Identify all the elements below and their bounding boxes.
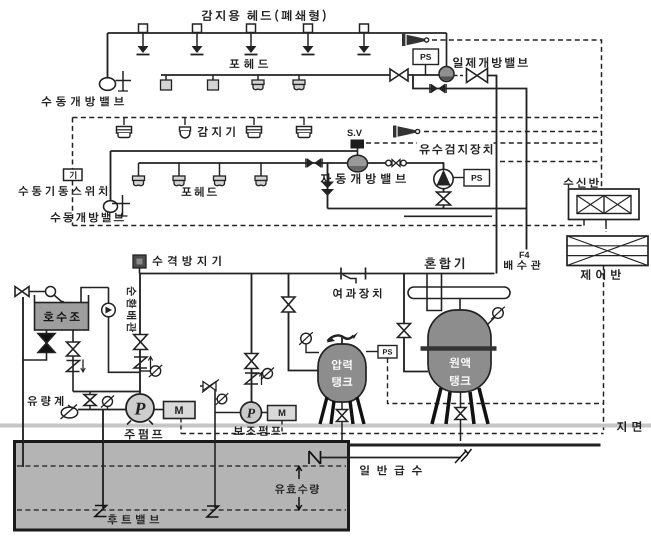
chamber drain — [341, 402, 343, 440]
dashed control panel down — [603, 266, 605, 434]
detection head 3 (closed type) — [245, 24, 258, 55]
label label waterflow detector — [420, 144, 493, 155]
priming feed line — [29, 291, 45, 293]
gate valve (deluge outlet) — [467, 69, 488, 83]
dashed signal flow-line — [500, 161, 602, 163]
pipe deluge outlet to riser1 — [488, 76, 497, 274]
circulation into tank — [81, 288, 109, 303]
foam head z2-1 — [133, 176, 145, 186]
alarm horn 2 (alarm horn) — [393, 126, 420, 138]
jockey check valve (swing check) — [245, 373, 264, 386]
label drain pipe end mark F4 — [520, 252, 530, 258]
drop head z2-3 — [219, 163, 221, 176]
drop to head 1 — [165, 75, 167, 80]
manual open valve (zone2) — [104, 195, 131, 216]
proportioner U-tube — [427, 274, 442, 311]
stem gauge main — [141, 370, 151, 372]
priming tank (호수조) — [35, 295, 89, 330]
label label proportioner — [425, 258, 465, 270]
foam head z2-2 — [173, 176, 185, 186]
dashed power line — [181, 433, 604, 435]
label label deluge valve — [453, 57, 528, 68]
dashed signal horn1 to receiver — [432, 40, 602, 189]
detector 1 — [117, 127, 132, 138]
drop head z2-1 — [138, 163, 140, 176]
priming outlet valve — [67, 342, 80, 356]
suction valve — [84, 395, 96, 406]
foam head 4 (zone1) — [293, 80, 305, 90]
discharge header — [140, 273, 495, 275]
pressure switch PS1 — [413, 49, 439, 65]
pressure chamber tank — [318, 344, 366, 402]
effective volume arrows — [296, 466, 302, 510]
motor M (main) — [164, 402, 196, 419]
pressure gauge (main) — [149, 365, 162, 377]
stem gauge foam tank — [488, 317, 495, 324]
main discharge gate valve — [134, 335, 148, 350]
dashed PS3 signal — [388, 358, 604, 404]
dashed stub deluge-gate — [455, 75, 467, 77]
stem arrester — [139, 268, 141, 274]
motor M (jockey) — [268, 406, 297, 421]
label label jockey pump — [234, 426, 281, 436]
water tank — [15, 442, 349, 531]
detection head 1 (closed type) — [137, 24, 150, 55]
label label water hammer arrester — [153, 256, 221, 266]
stem gauge suction — [107, 407, 109, 410]
foam head 2 (zone1) — [208, 80, 219, 90]
overflow/drain pipe (x23) — [22, 297, 24, 467]
detection head 4 (closed type) — [302, 24, 315, 55]
label label receiver panel — [564, 178, 599, 188]
label foam tank text line2 — [450, 376, 471, 387]
foam tank drain — [460, 392, 462, 441]
chamber drain valve — [337, 410, 348, 422]
general supply pipe — [322, 457, 462, 459]
label label drain pipe — [504, 260, 541, 270]
dashed receiver to control — [605, 226, 607, 232]
dashed signal SV — [366, 142, 602, 144]
label label automatic open valve — [321, 173, 406, 184]
label label foam heads (zone2) — [182, 187, 217, 197]
tank drain left — [23, 330, 47, 360]
jockey suction — [215, 412, 241, 414]
alarm horn 1 (alarm horn) — [402, 34, 429, 46]
ground line — [0, 424, 651, 428]
pressure gauge (jockey) — [261, 368, 274, 380]
drop to manual valve 2 — [110, 151, 112, 201]
relief test valve (jockey suction) — [202, 380, 219, 393]
foam tank water line — [404, 274, 428, 372]
water hammer arrester — [133, 255, 146, 268]
stem detector 2 — [184, 118, 186, 126]
jockey suction drop — [214, 391, 216, 508]
small test valve (ball w/ unions) — [386, 160, 407, 167]
stem detector 1 — [123, 118, 125, 126]
jockey suction top line — [200, 386, 215, 391]
check symbol (zone2 line) (check symbol) — [306, 159, 322, 168]
control panel (제어반) — [567, 236, 648, 266]
label label foam heads (zone1) — [230, 59, 269, 69]
test check valves (top) (check symbol) — [430, 84, 446, 93]
jockey pump P — [241, 402, 262, 423]
gate valve (deluge inlet) — [390, 69, 408, 81]
relief valve (circulation) — [102, 303, 116, 317]
foam head 1 (zone1) — [161, 80, 172, 90]
deluge valve (일제개방밸브) — [439, 67, 454, 82]
drain header (zone2) — [328, 208, 527, 210]
pipe below alarm valve — [443, 189, 445, 209]
label label strainer — [333, 288, 381, 298]
pipe drop to manual valve — [107, 33, 109, 78]
general supply symbol N — [309, 451, 321, 464]
label label priming tank — [44, 312, 80, 322]
drop head z2-4 — [260, 163, 262, 176]
tank outlet right — [72, 330, 74, 392]
label title detection heads — [202, 9, 326, 21]
stem detector 3 — [253, 118, 255, 126]
drop to head 4 — [298, 75, 300, 80]
foam head z2-3 — [214, 176, 226, 186]
pipe to alarm valve — [368, 163, 444, 170]
check valve (double triangle) — [321, 182, 334, 197]
manual start switch box — [64, 169, 83, 181]
suction line main — [78, 409, 127, 411]
detection head 2 (closed type) — [191, 24, 204, 55]
ball float valve — [46, 287, 65, 305]
drain valve (alarm) — [437, 192, 451, 205]
label label manual open valve (top) — [42, 96, 124, 106]
drop to head 2 — [212, 75, 214, 80]
label label circulation pipe (vertical) — [127, 287, 137, 333]
circulation line upper — [108, 288, 110, 304]
label label manual open valve (zone2) — [51, 212, 124, 222]
gauge (jockey suction) — [216, 393, 229, 405]
label label effective volume — [275, 484, 319, 494]
dashed zone2 box top — [73, 117, 602, 119]
air vent (chamber) — [327, 332, 359, 344]
link chamber-PS — [366, 351, 378, 353]
foam head z2-4 — [255, 176, 267, 186]
chamber valve — [282, 297, 295, 312]
floor line — [349, 444, 601, 447]
supply pipe break — [455, 449, 472, 463]
priming check valve (swing check) — [67, 360, 86, 373]
foam drain valve — [455, 408, 466, 420]
dashed zone2 box bottom — [73, 225, 585, 227]
foam tank legs — [432, 388, 488, 424]
detection head 5 (closed type) — [358, 24, 371, 55]
pipe preaction supply — [111, 150, 358, 152]
priming return line — [73, 391, 141, 393]
detector 3 — [247, 127, 262, 138]
compound gauge (suction) — [101, 396, 114, 408]
pressure gauge (chamber) — [299, 332, 313, 345]
label label general supply — [360, 465, 422, 475]
stem gauge jockey — [252, 373, 263, 375]
stem gauge jockey-suction — [215, 398, 218, 400]
pipe head branch (zone2) — [139, 162, 349, 164]
dashed M1 drop — [180, 419, 182, 434]
manual open valve (top zone) — [100, 71, 132, 91]
link jockey-motor — [262, 412, 268, 414]
proportioner capsule (혼합기) — [408, 287, 510, 299]
proportioner stem — [459, 299, 461, 312]
foot valve (jockey) — [207, 506, 219, 517]
label label foot valve — [108, 514, 160, 524]
stem PS1 — [425, 65, 427, 76]
drop to head 3 — [257, 75, 259, 80]
alarm check valve — [434, 169, 453, 188]
pipe detection branch — [108, 32, 447, 34]
circulation line lower — [109, 317, 141, 373]
main pump column — [139, 274, 141, 396]
label label ground — [617, 421, 642, 432]
pipe open-head branch (zone1) — [161, 74, 440, 76]
dashed zone2 box left (lower) — [72, 181, 74, 226]
label label flow meter — [28, 396, 64, 406]
drain stub — [404, 215, 492, 217]
priming feed valve — [15, 287, 29, 297]
pressure gauge (foam tank) — [491, 307, 505, 320]
solenoid valve S.V — [351, 140, 365, 156]
test bypass pipe — [413, 75, 527, 250]
drop check branch — [327, 163, 329, 209]
strainer (여과장치) — [341, 268, 366, 284]
pressure switch PS3 — [378, 346, 397, 359]
drop head z2-2 — [178, 163, 180, 176]
main pump P — [126, 394, 154, 425]
automatic open valve (ball) — [348, 155, 368, 172]
label label manual start switch — [19, 186, 108, 196]
pressure switch PS2 — [464, 170, 490, 187]
label foam tank text line1 — [450, 358, 470, 369]
label chamber text line2 — [332, 377, 352, 387]
stem deluge top — [446, 33, 448, 67]
main discharge check valve (swing check) — [134, 357, 153, 370]
label label control panel — [580, 269, 621, 280]
stem gauge chamber — [306, 344, 319, 353]
suction drop main — [102, 410, 104, 509]
stem detector 4 — [303, 118, 305, 126]
dashed zone2 box left (upper) — [72, 118, 74, 170]
link alarm-PS — [453, 177, 464, 179]
foam water valve — [398, 324, 411, 338]
chamber column — [289, 274, 319, 371]
suction valve branch — [89, 392, 91, 410]
jockey gate valve — [245, 354, 258, 369]
foam concentrate tank (원액탱크) — [428, 310, 491, 392]
detector 4 — [297, 127, 312, 138]
chamber legs — [320, 397, 364, 424]
foot valve (main) — [95, 506, 107, 517]
dashed M2 drop — [281, 421, 283, 434]
link pump-motor — [154, 409, 164, 411]
label S.V — [347, 130, 362, 137]
flow meter — [61, 405, 78, 420]
jockey column — [251, 274, 253, 403]
priming drain valve (closed) — [38, 334, 55, 353]
label label main pump — [125, 429, 163, 440]
dashed signal horn2 — [424, 131, 602, 133]
foam head 3 (zone1) — [252, 80, 264, 90]
receiver panel (수신반) — [569, 189, 640, 220]
stem receiver R — [605, 220, 607, 227]
detector 2 (dome) — [180, 127, 191, 138]
stem receiver L — [583, 220, 585, 226]
white backing for label — [417, 139, 494, 155]
label label detectors — [198, 127, 235, 138]
diaphragm band — [421, 346, 497, 351]
label chamber text line1 — [332, 360, 352, 370]
